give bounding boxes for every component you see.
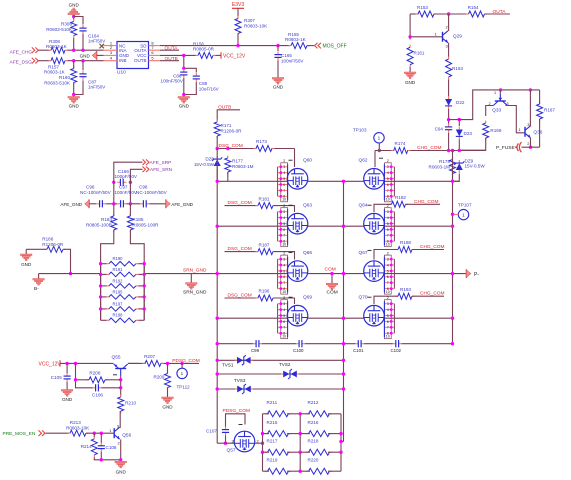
svg-text:R192: R192 bbox=[113, 278, 124, 283]
svg-text:R0603-10K: R0603-10K bbox=[244, 23, 268, 28]
wire Q33 collector leg bbox=[506, 106, 526, 133]
resistor R169 bbox=[485, 121, 487, 124]
svg-text:Q67: Q67 bbox=[359, 250, 368, 256]
node bbox=[529, 88, 532, 91]
svg-text:R1206-0R: R1206-0R bbox=[221, 128, 243, 133]
resistor R210 bbox=[120, 395, 122, 398]
svg-text:R154: R154 bbox=[468, 5, 479, 10]
wire shunt left rail bbox=[100, 264, 102, 321]
ground bbox=[178, 97, 190, 99]
svg-text:R163: R163 bbox=[452, 66, 463, 71]
pin stack Q63 bbox=[281, 208, 288, 247]
resistor R207 bbox=[143, 362, 146, 364]
resistor R193 bbox=[396, 295, 399, 297]
junction bbox=[99, 262, 102, 265]
svg-text:C165: C165 bbox=[281, 53, 292, 58]
mosfet Q60 bbox=[287, 169, 308, 190]
junction bbox=[99, 307, 102, 310]
svg-text:C94: C94 bbox=[435, 126, 444, 131]
wire bbox=[305, 343, 356, 345]
svg-text:CHG_COM: CHG_COM bbox=[420, 291, 445, 297]
mosfet Q62 bbox=[364, 169, 385, 190]
wire bbox=[453, 174, 460, 182]
node bbox=[81, 49, 84, 52]
wire bbox=[167, 363, 169, 373]
wire bbox=[300, 433, 310, 435]
svg-text:R0603-1K: R0603-1K bbox=[46, 44, 68, 49]
svg-text:GND: GND bbox=[116, 470, 127, 475]
wire bbox=[76, 379, 90, 381]
wire bbox=[459, 138, 485, 150]
svg-text:TP112: TP112 bbox=[177, 384, 191, 389]
svg-text:R193: R193 bbox=[400, 287, 411, 292]
wire R185 to stack bbox=[130, 230, 144, 320]
svg-text:R209: R209 bbox=[154, 375, 165, 380]
node bbox=[100, 458, 103, 461]
junction bbox=[330, 272, 333, 275]
svg-text:B-: B- bbox=[34, 286, 39, 292]
svg-text:C97: C97 bbox=[119, 185, 128, 190]
ground bbox=[404, 72, 416, 74]
wire bbox=[82, 61, 84, 70]
svg-text:CHG_COM: CHG_COM bbox=[414, 199, 439, 205]
mosfet Q63 bbox=[287, 213, 308, 234]
junction bbox=[143, 273, 146, 276]
junction bbox=[216, 180, 219, 183]
capacitor C164 bbox=[82, 25, 84, 28]
svg-text:R0805-100R: R0805-100R bbox=[132, 222, 159, 227]
wire bbox=[263, 470, 270, 472]
node bbox=[458, 149, 461, 152]
svg-text:R220: R220 bbox=[308, 457, 319, 462]
svg-text:7: 7 bbox=[387, 326, 389, 330]
resistor R153 bbox=[416, 13, 419, 15]
capacitor C88 bbox=[195, 73, 197, 76]
node bbox=[447, 149, 450, 152]
svg-text:2: 2 bbox=[527, 141, 530, 146]
svg-text:2: 2 bbox=[446, 25, 449, 30]
junction bbox=[216, 387, 219, 390]
svg-text:R0603-1K: R0603-1K bbox=[285, 37, 307, 42]
svg-text:3: 3 bbox=[446, 44, 449, 49]
node bbox=[74, 378, 77, 381]
svg-text:10: 10 bbox=[282, 243, 286, 247]
wire bbox=[74, 17, 83, 25]
wire bbox=[522, 146, 540, 148]
wire bbox=[149, 203, 166, 205]
svg-text:DZ9: DZ9 bbox=[465, 158, 474, 163]
resistor R184 bbox=[113, 213, 115, 216]
wire top link bbox=[449, 90, 540, 120]
svg-text:C98: C98 bbox=[139, 185, 148, 190]
svg-text:R153: R153 bbox=[417, 5, 428, 10]
mosfet Q69 bbox=[287, 305, 308, 326]
svg-text:R169: R169 bbox=[490, 128, 501, 133]
capacitor C107 bbox=[225, 427, 227, 430]
wire center trunk bbox=[343, 181, 345, 441]
resistor R218 bbox=[306, 451, 309, 453]
pin stack Q70 bbox=[384, 300, 391, 339]
wire bbox=[458, 140, 460, 151]
junction bbox=[451, 272, 454, 275]
diode D23 bbox=[458, 127, 460, 130]
svg-text:GND: GND bbox=[69, 3, 80, 8]
tvs TVS2 bbox=[281, 373, 284, 375]
svg-text:R210: R210 bbox=[125, 401, 136, 406]
svg-text:3: 3 bbox=[387, 302, 389, 306]
svg-text:R181: R181 bbox=[259, 196, 270, 201]
wire trunk jog bbox=[341, 441, 344, 443]
node bbox=[261, 442, 264, 445]
svg-text:E3V3: E3V3 bbox=[232, 2, 244, 8]
port AFE_GND right bbox=[165, 199, 167, 208]
resistor R307 bbox=[237, 16, 239, 19]
svg-text:CHG_COM: CHG_COM bbox=[417, 145, 442, 151]
wire Q56 collector bbox=[119, 411, 121, 428]
junction bbox=[342, 317, 345, 320]
svg-text:10: 10 bbox=[386, 335, 390, 339]
svg-text:R0603-510K: R0603-510K bbox=[46, 27, 73, 32]
capacitor C99 bbox=[253, 343, 256, 345]
svg-text:6: 6 bbox=[151, 50, 154, 55]
ground bbox=[162, 397, 174, 399]
junction bbox=[299, 432, 302, 435]
svg-text:P-: P- bbox=[474, 272, 479, 278]
node bbox=[499, 88, 502, 91]
svg-text:10: 10 bbox=[386, 243, 390, 247]
svg-text:R208: R208 bbox=[89, 371, 100, 376]
resistor R157 bbox=[49, 60, 52, 62]
wire bbox=[161, 362, 200, 364]
wire gate Q60 bbox=[294, 149, 296, 168]
svg-text:2: 2 bbox=[118, 441, 121, 446]
svg-text:7: 7 bbox=[283, 326, 285, 330]
junction bbox=[99, 284, 102, 287]
svg-text:GND: GND bbox=[405, 80, 416, 85]
ground bbox=[61, 390, 73, 392]
resistor R173 bbox=[254, 148, 257, 150]
capacitor C100 bbox=[296, 343, 299, 345]
svg-text:15V-0.5W: 15V-0.5W bbox=[465, 164, 486, 169]
wire bbox=[94, 457, 120, 460]
wire bbox=[227, 172, 229, 181]
svg-text:C108: C108 bbox=[106, 445, 117, 450]
port MOS_OFF bbox=[315, 43, 318, 49]
svg-text:2: 2 bbox=[387, 204, 389, 208]
wire base Q29 bbox=[410, 36, 442, 38]
resistor R212 bbox=[306, 413, 309, 415]
node bbox=[216, 147, 219, 150]
wire bbox=[101, 285, 107, 287]
port AFE_SRN bbox=[143, 167, 146, 173]
svg-text:2: 2 bbox=[387, 159, 389, 163]
ground bbox=[68, 97, 80, 99]
wire bbox=[113, 204, 115, 216]
svg-text:4: 4 bbox=[283, 216, 285, 220]
svg-text:R198: R198 bbox=[113, 313, 124, 318]
wire rail2 bbox=[217, 225, 452, 227]
svg-text:AFE_CHG: AFE_CHG bbox=[10, 49, 33, 55]
wire bbox=[378, 142, 380, 150]
svg-text:NC-100nF/50V: NC-100nF/50V bbox=[136, 190, 168, 195]
wire VCC bbox=[160, 54, 196, 56]
svg-text:R217: R217 bbox=[267, 438, 278, 443]
svg-text:R177: R177 bbox=[232, 159, 243, 164]
svg-text:4: 4 bbox=[283, 171, 285, 175]
svg-text:5: 5 bbox=[283, 222, 285, 226]
wire DSG_COM row bbox=[217, 148, 256, 150]
mosfet Q66 bbox=[287, 261, 308, 282]
capacitor C101 bbox=[355, 343, 358, 345]
svg-text:R215: R215 bbox=[267, 420, 278, 425]
svg-text:100nF/50V: 100nF/50V bbox=[161, 79, 184, 84]
junction bbox=[216, 272, 219, 275]
node bbox=[112, 202, 115, 205]
wire bbox=[226, 414, 246, 427]
svg-text:Q55: Q55 bbox=[112, 355, 121, 361]
svg-text:Q36: Q36 bbox=[533, 129, 542, 135]
junction bbox=[299, 412, 302, 415]
junction bbox=[299, 451, 302, 454]
wire bbox=[448, 80, 450, 97]
svg-text:6: 6 bbox=[283, 228, 285, 232]
junction bbox=[216, 342, 219, 345]
svg-text:10: 10 bbox=[282, 198, 286, 202]
node bbox=[182, 67, 185, 70]
junction bbox=[451, 180, 454, 183]
svg-text:1nF/50V: 1nF/50V bbox=[88, 85, 106, 90]
pin stack Q67 bbox=[384, 255, 391, 294]
wire bbox=[216, 136, 218, 149]
capacitor C108 bbox=[100, 443, 102, 446]
svg-text:7: 7 bbox=[283, 189, 285, 193]
wire bbox=[100, 452, 102, 460]
resistor R209 bbox=[167, 371, 169, 374]
svg-text:R307: R307 bbox=[244, 18, 255, 23]
svg-text:SRN_GND: SRN_GND bbox=[183, 267, 207, 273]
pin 3 bbox=[104, 54, 118, 56]
ground bbox=[115, 461, 127, 463]
resistor R178 bbox=[452, 157, 454, 160]
svg-text:R195: R195 bbox=[113, 289, 124, 294]
svg-text:C100: C100 bbox=[293, 348, 304, 353]
svg-text:100nF/50V: 100nF/50V bbox=[281, 59, 304, 64]
resistor R185 bbox=[129, 213, 131, 216]
junction bbox=[451, 317, 454, 320]
wire bbox=[76, 363, 93, 387]
resistor R192 bbox=[106, 285, 109, 287]
svg-text:R0603-510K: R0603-510K bbox=[44, 81, 71, 86]
pin stack Q66 bbox=[281, 255, 288, 294]
wire bbox=[307, 45, 314, 47]
wire CHG row bbox=[375, 150, 394, 152]
pin 6 VCC bbox=[149, 54, 161, 56]
svg-text:5: 5 bbox=[283, 269, 285, 273]
wire bbox=[102, 387, 121, 389]
node A bbox=[72, 15, 75, 18]
wire SRN bbox=[130, 169, 142, 178]
power COM bbox=[331, 274, 333, 284]
junction bbox=[339, 451, 342, 454]
junction bbox=[216, 225, 219, 228]
capacitor C87 bbox=[82, 71, 84, 74]
svg-text:OUTB: OUTB bbox=[165, 56, 178, 62]
svg-text:5: 5 bbox=[283, 314, 285, 318]
capacitor C165 bbox=[277, 52, 279, 55]
svg-text:6: 6 bbox=[283, 275, 285, 279]
svg-text:3: 3 bbox=[387, 258, 389, 262]
svg-text:10: 10 bbox=[282, 290, 286, 294]
wire bbox=[448, 109, 450, 124]
svg-text:P_FUSE: P_FUSE bbox=[496, 145, 515, 151]
node bbox=[72, 49, 75, 52]
node bbox=[378, 149, 381, 152]
pin 4 bbox=[104, 60, 118, 62]
node bbox=[112, 181, 115, 184]
svg-text:7: 7 bbox=[387, 189, 389, 193]
wire TVS3 row bbox=[217, 388, 343, 390]
resistor R155 bbox=[289, 45, 292, 47]
pin stack Q64 bbox=[384, 208, 391, 247]
wire bbox=[100, 433, 102, 443]
wire bbox=[60, 362, 114, 364]
svg-text:MOS_OFF: MOS_OFF bbox=[323, 44, 347, 50]
resistor R219 bbox=[265, 470, 268, 472]
wire bbox=[539, 119, 541, 147]
resistor R195 bbox=[106, 296, 109, 298]
wire bbox=[73, 15, 75, 20]
node bbox=[93, 432, 96, 435]
svg-text:2: 2 bbox=[283, 159, 285, 163]
wire bbox=[263, 451, 270, 453]
svg-text:Q56: Q56 bbox=[122, 433, 131, 439]
resistor R308 bbox=[49, 49, 52, 51]
wire gate Q67 bbox=[374, 250, 398, 260]
svg-text:5: 5 bbox=[387, 222, 389, 226]
svg-text:6: 6 bbox=[387, 183, 389, 187]
svg-text:TP107: TP107 bbox=[458, 202, 472, 207]
svg-text:R178: R178 bbox=[439, 159, 450, 164]
svg-text:R184: R184 bbox=[101, 217, 112, 222]
net OUTA bbox=[160, 49, 179, 51]
wire bbox=[277, 61, 279, 78]
svg-text:R186: R186 bbox=[42, 237, 53, 242]
svg-text:Q57: Q57 bbox=[227, 448, 236, 454]
svg-text:R174: R174 bbox=[395, 141, 406, 146]
svg-text:R0603-1K: R0603-1K bbox=[44, 70, 66, 75]
resistor R217 bbox=[265, 451, 268, 453]
svg-text:TP103: TP103 bbox=[353, 127, 367, 132]
wire bbox=[89, 203, 96, 205]
svg-text:Q64: Q64 bbox=[359, 203, 368, 209]
ground bbox=[272, 78, 284, 80]
svg-text:NC-100nF/50V: NC-100nF/50V bbox=[80, 190, 112, 195]
svg-text:C106: C106 bbox=[92, 392, 103, 397]
node bbox=[72, 93, 75, 96]
net CHG_COM Q64 bbox=[406, 203, 441, 205]
wire bbox=[86, 432, 114, 434]
wire OUTA vert bbox=[409, 14, 411, 40]
resistor R161 bbox=[409, 45, 411, 48]
resistor R156 bbox=[196, 54, 199, 56]
wire bbox=[410, 13, 418, 15]
svg-text:Q69: Q69 bbox=[303, 295, 312, 301]
svg-text:R191: R191 bbox=[113, 267, 124, 272]
wire bbox=[184, 82, 197, 95]
svg-text:R167: R167 bbox=[544, 108, 555, 113]
wire bbox=[167, 388, 169, 398]
resistor R197 bbox=[106, 308, 109, 310]
resistor R171 bbox=[216, 120, 218, 123]
wire bbox=[129, 178, 131, 204]
wire R207 row bbox=[128, 362, 146, 364]
svg-text:C101: C101 bbox=[353, 348, 364, 353]
svg-text:1: 1 bbox=[109, 428, 112, 433]
svg-text:CHG_COM: CHG_COM bbox=[420, 244, 445, 250]
svg-text:3: 3 bbox=[283, 210, 285, 214]
resistor R214 bbox=[93, 436, 95, 439]
wire bbox=[66, 363, 68, 373]
resistor R220 bbox=[306, 470, 309, 472]
svg-text:3: 3 bbox=[387, 210, 389, 214]
wire shunt right rail bbox=[143, 264, 145, 321]
svg-text:100nF/50V: 100nF/50V bbox=[115, 190, 138, 195]
svg-text:PRE_MOS_EN: PRE_MOS_EN bbox=[3, 431, 36, 437]
node bbox=[182, 54, 185, 57]
node bbox=[447, 12, 450, 15]
wire gate Q64 bbox=[374, 204, 392, 212]
svg-text:7: 7 bbox=[283, 234, 285, 238]
junction bbox=[342, 180, 345, 183]
node bbox=[339, 440, 342, 443]
transistor Q33 bbox=[499, 90, 501, 94]
node bbox=[69, 272, 72, 275]
junction bbox=[143, 307, 146, 310]
port B- bbox=[38, 274, 40, 279]
resistor R174 bbox=[391, 150, 394, 152]
wire bbox=[74, 80, 83, 94]
power SRN_GND bbox=[190, 274, 192, 283]
svg-text:AFE_GND: AFE_GND bbox=[171, 202, 193, 207]
svg-text:R212: R212 bbox=[308, 400, 319, 405]
svg-text:5: 5 bbox=[151, 56, 154, 61]
resistor R198 bbox=[106, 319, 109, 321]
node bbox=[458, 118, 461, 121]
svg-text:2: 2 bbox=[283, 204, 285, 208]
svg-text:3: 3 bbox=[110, 50, 113, 55]
svg-text:D23: D23 bbox=[464, 131, 473, 136]
svg-text:GND: GND bbox=[21, 262, 32, 267]
svg-text:R219: R219 bbox=[267, 457, 278, 462]
wire bbox=[272, 148, 295, 150]
wire bbox=[129, 204, 131, 216]
svg-text:R0603-10K: R0603-10K bbox=[66, 425, 90, 430]
wire bbox=[409, 67, 411, 72]
resistor R163 bbox=[448, 57, 450, 60]
power VCC_12V bbox=[216, 54, 222, 56]
svg-text:R160: R160 bbox=[59, 75, 70, 80]
test point TP112 bbox=[181, 363, 183, 368]
svg-text:R1206-0R: R1206-0R bbox=[42, 242, 64, 247]
wire gate Q62 bbox=[374, 151, 376, 168]
pin 7 OUTA bbox=[149, 49, 161, 51]
wire AFE_DSG to INB bbox=[68, 60, 104, 62]
svg-text:R161: R161 bbox=[414, 51, 425, 56]
wire bbox=[25, 249, 27, 254]
svg-text:R216: R216 bbox=[308, 420, 319, 425]
svg-text:C107: C107 bbox=[206, 429, 217, 434]
capacitor C86 bbox=[183, 69, 185, 72]
